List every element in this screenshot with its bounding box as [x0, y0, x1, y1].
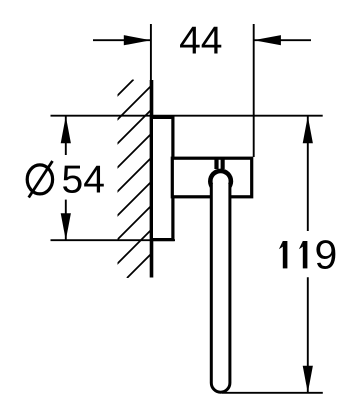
dimension line 119 + arrows — [307, 117, 309, 232]
knuckle (hinge ring) — [208, 169, 233, 194]
svg-text:54: 54 — [62, 158, 105, 201]
svg-text:9: 9 — [315, 232, 338, 278]
extension line right (44) — [253, 24, 255, 157]
extension line left (44) — [150, 24, 152, 81]
dimension line 44 right + arrow — [254, 39, 311, 41]
flange plate (side view) — [151, 117, 173, 239]
dimension line 44 left + arrow — [93, 39, 151, 41]
top extension line (flange top / 119 top) — [51, 115, 323, 117]
pivot pin — [214, 158, 218, 170]
wall surface line — [150, 80, 154, 278]
svg-text:44: 44 — [179, 20, 222, 63]
dimension line diameter 54 + arrows — [65, 117, 67, 156]
bottom extension line diameter 54 — [51, 239, 176, 241]
bottom extension line (119 bottom) — [222, 392, 323, 394]
wall hatching — [0, 80, 326, 279]
holder post body — [172, 158, 251, 197]
label 119 — [279, 232, 337, 278]
holder arm tube — [211, 184, 230, 392]
label diameter 54 — [27, 161, 52, 198]
